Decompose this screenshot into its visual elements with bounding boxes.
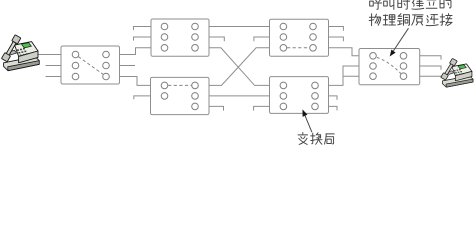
wire stub B4 right row2 with hook	[329, 37, 344, 41]
wire B5 row1 to B6 row2 (step up)	[329, 66, 360, 85]
contacts B6 left column	[370, 53, 377, 80]
contacts B2 left column	[161, 23, 168, 51]
wire stub B2 left row1 with hook	[134, 27, 152, 31]
wire stub B5 left row3 with hook	[254, 106, 270, 110]
arrow pointer to copper connection in B6	[390, 28, 409, 56]
wire trunk B2 row1 to B4 row1	[209, 26, 270, 28]
wire stub B1 right row2	[120, 65, 136, 67]
wire stub B4 right row1 with hook	[329, 27, 344, 31]
dashed circuit inside B1 (diagonal)	[78, 57, 103, 75]
contacts B4 right column	[310, 23, 317, 51]
wire B6 row3 to phone-right	[420, 75, 447, 77]
wire B1 row1 to B2 row3 (step up)	[120, 48, 152, 55]
switching office box B4	[270, 19, 329, 56]
label text 呼叫时建立的 (established when calling)	[370, 0, 451, 9]
wire stub B1 left row3	[46, 76, 62, 78]
wire trunk B2 row3 crossing down to B5 row1	[209, 48, 270, 86]
label text 交换局 (switching office)	[298, 133, 334, 145]
switching office box B5	[270, 77, 329, 114]
switching office box B3	[151, 77, 210, 114]
telephone left	[1, 35, 39, 71]
dashed circuit inside B3 (horizontal)	[168, 84, 191, 86]
wire stub B2 right row2 with hook	[209, 37, 224, 41]
contacts B1 right column	[103, 51, 110, 80]
wire B4 row3 to B6 row1 (step down)	[329, 48, 360, 56]
wire trunk B3 row1 crossing up to B4 row3	[209, 48, 270, 86]
wire stub B6 right row2 with hook	[420, 66, 441, 70]
wire stub B5 right row2 with hook	[329, 96, 338, 100]
telephone right	[441, 58, 473, 87]
contacts B6 right column	[400, 53, 407, 80]
wire stub B4 left row2 with hook	[254, 37, 270, 41]
switching office box B1	[61, 46, 120, 84]
contacts B3 right column	[192, 82, 199, 110]
dashed circuit inside B6 (curve)	[377, 58, 401, 74]
contacts B3 left column (two contacts)	[161, 82, 168, 99]
contacts B4 left column	[280, 23, 287, 51]
wire stub B1 left row2	[46, 65, 62, 67]
wire phone-left to office B1 row1	[36, 54, 61, 56]
wire trunk B3 row2 to B5 row2	[209, 95, 270, 97]
switching office box B6	[359, 49, 420, 85]
contacts B2 right column	[192, 23, 199, 51]
switching office box B2	[151, 19, 209, 56]
wire B1 row3 to B3 row1 (step down)	[120, 77, 151, 86]
label text 物理铜质连接 (physical copper connection)	[369, 14, 452, 26]
arrow pointer to switching office B5	[303, 109, 312, 132]
contacts B5 left column	[280, 82, 287, 110]
wire stub B6 left row3 with hook	[343, 76, 359, 80]
contacts B1 left column	[72, 51, 79, 80]
contacts B5 right column	[312, 82, 319, 110]
wire stub B2 left row2 with hook	[134, 37, 152, 41]
dashed circuit inside B4 (horizontal)	[287, 47, 309, 49]
wire stub B3 left row2 with hook	[134, 96, 151, 99]
wire stub B5 right row3 with hook	[329, 106, 338, 110]
wire stub B3 right row3 with hook	[209, 106, 224, 110]
wire stub B6 right row1 with hook	[420, 56, 441, 60]
